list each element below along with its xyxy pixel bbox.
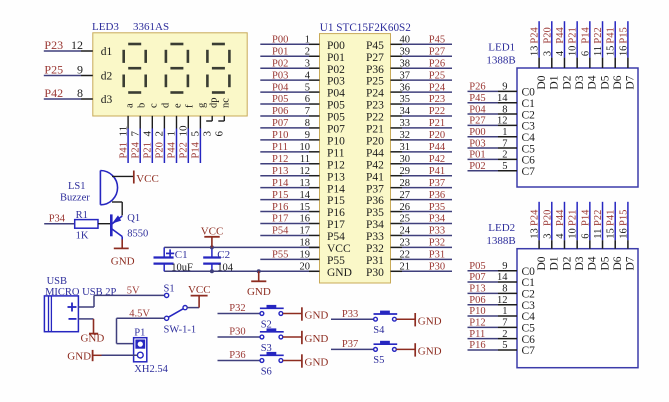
svg-text:P34: P34 <box>429 214 446 225</box>
svg-text:P44: P44 <box>429 142 446 153</box>
svg-text:P01: P01 <box>469 150 485 161</box>
svg-text:SW-1-1: SW-1-1 <box>164 325 197 336</box>
svg-text:6: 6 <box>305 94 310 105</box>
svg-text:13: 13 <box>530 228 541 239</box>
svg-text:7: 7 <box>129 131 141 137</box>
svg-text:VCC: VCC <box>188 284 211 296</box>
svg-text:37: 37 <box>400 70 411 81</box>
svg-text:LS1: LS1 <box>68 181 86 192</box>
svg-text:P42: P42 <box>44 86 63 100</box>
svg-text:3: 3 <box>305 58 310 69</box>
svg-text:3: 3 <box>542 233 553 238</box>
svg-text:P42: P42 <box>429 154 445 165</box>
svg-text:7: 7 <box>305 106 310 117</box>
svg-text:P44: P44 <box>555 209 566 226</box>
svg-text:P26: P26 <box>469 82 485 93</box>
svg-text:P32: P32 <box>229 303 245 314</box>
svg-text:P37: P37 <box>342 339 358 350</box>
svg-text:C7: C7 <box>522 166 536 178</box>
svg-text:D4: D4 <box>587 75 599 89</box>
svg-text:P24: P24 <box>530 27 541 44</box>
svg-text:P05: P05 <box>469 261 485 272</box>
svg-text:P16: P16 <box>469 340 485 351</box>
svg-text:32: 32 <box>400 130 411 141</box>
svg-text:LED3: LED3 <box>92 21 119 33</box>
svg-text:7: 7 <box>502 318 507 329</box>
svg-text:P06: P06 <box>272 106 288 117</box>
svg-text:P25: P25 <box>44 63 63 77</box>
svg-text:P15: P15 <box>327 195 345 207</box>
svg-text:a: a <box>124 103 135 108</box>
svg-text:29: 29 <box>400 166 411 177</box>
svg-text:9: 9 <box>502 261 507 272</box>
svg-text:P23: P23 <box>44 38 63 52</box>
svg-text:P24: P24 <box>130 141 141 158</box>
svg-text:P36: P36 <box>429 190 445 201</box>
svg-text:P11: P11 <box>469 329 485 340</box>
svg-text:C5: C5 <box>522 143 536 155</box>
svg-text:P45: P45 <box>429 35 445 46</box>
svg-text:4: 4 <box>555 50 566 56</box>
svg-text:P17: P17 <box>272 214 288 225</box>
svg-text:19: 19 <box>300 250 311 261</box>
svg-text:P22: P22 <box>429 106 445 117</box>
svg-text:P36: P36 <box>229 350 245 361</box>
svg-text:e: e <box>173 103 184 108</box>
svg-text:6: 6 <box>580 233 591 238</box>
svg-text:P24: P24 <box>530 209 541 226</box>
svg-text:P07: P07 <box>327 124 345 136</box>
svg-text:5: 5 <box>502 161 507 172</box>
svg-text:P21: P21 <box>568 27 579 43</box>
svg-text:14: 14 <box>497 93 508 104</box>
svg-text:b: b <box>136 103 147 108</box>
svg-text:39: 39 <box>400 46 411 57</box>
svg-text:D6: D6 <box>612 75 624 89</box>
svg-text:14: 14 <box>497 272 508 283</box>
svg-text:P54: P54 <box>327 231 345 243</box>
svg-text:C7: C7 <box>522 345 536 357</box>
svg-text:P54: P54 <box>272 226 289 237</box>
svg-text:GND: GND <box>111 256 135 268</box>
svg-text:P05: P05 <box>272 94 288 105</box>
svg-text:D7: D7 <box>625 256 637 270</box>
svg-text:31: 31 <box>400 142 411 153</box>
svg-text:P03: P03 <box>327 76 345 88</box>
svg-text:P36: P36 <box>366 195 384 207</box>
svg-text:P22: P22 <box>179 142 190 158</box>
svg-text:P13: P13 <box>272 166 288 177</box>
svg-text:P45: P45 <box>366 40 384 52</box>
svg-text:15: 15 <box>606 228 617 239</box>
svg-text:3: 3 <box>542 51 553 56</box>
svg-text:26: 26 <box>400 202 411 213</box>
svg-text:S4: S4 <box>373 325 385 336</box>
svg-text:P25: P25 <box>429 70 445 81</box>
svg-text:GND: GND <box>247 286 271 298</box>
svg-text:P20: P20 <box>542 27 553 43</box>
svg-text:P31: P31 <box>429 250 445 261</box>
svg-text:P44: P44 <box>167 141 178 158</box>
svg-text:P41: P41 <box>118 142 129 158</box>
svg-text:P41: P41 <box>429 166 445 177</box>
svg-text:P41: P41 <box>606 210 617 226</box>
svg-text:g: g <box>197 102 208 108</box>
svg-text:S6: S6 <box>261 366 272 377</box>
svg-text:D1: D1 <box>549 75 561 89</box>
svg-text:8: 8 <box>502 104 507 115</box>
svg-text:30: 30 <box>400 154 411 165</box>
svg-text:P17: P17 <box>327 219 345 231</box>
svg-text:GND: GND <box>67 350 91 362</box>
svg-text:P10: P10 <box>327 135 345 147</box>
svg-text:C6: C6 <box>522 155 536 167</box>
svg-text:5: 5 <box>305 82 310 93</box>
svg-text:C1: C1 <box>522 98 536 110</box>
svg-text:11: 11 <box>300 154 310 165</box>
svg-text:GND: GND <box>80 333 104 345</box>
svg-text:P04: P04 <box>469 104 486 115</box>
svg-text:10uF: 10uF <box>171 263 193 274</box>
svg-text:25: 25 <box>400 214 411 225</box>
svg-text:P16: P16 <box>327 207 345 219</box>
svg-text:9: 9 <box>305 130 310 141</box>
svg-text:2: 2 <box>502 329 507 340</box>
svg-text:P12: P12 <box>272 154 288 165</box>
svg-text:C0: C0 <box>522 266 536 278</box>
svg-text:P20: P20 <box>429 130 445 141</box>
svg-text:P00: P00 <box>327 40 345 52</box>
svg-text:D3: D3 <box>574 256 586 270</box>
svg-text:R1: R1 <box>76 210 88 221</box>
svg-text:P23: P23 <box>429 94 445 105</box>
svg-text:22: 22 <box>400 250 411 261</box>
svg-text:11: 11 <box>593 46 604 56</box>
svg-text:P12: P12 <box>327 159 345 171</box>
svg-text:9: 9 <box>77 63 83 77</box>
svg-text:21: 21 <box>400 261 411 272</box>
svg-text:C3: C3 <box>522 300 536 312</box>
svg-text:f: f <box>185 104 196 108</box>
svg-text:LED1: LED1 <box>488 42 515 54</box>
svg-text:P03: P03 <box>469 138 485 149</box>
svg-text:D2: D2 <box>561 75 573 89</box>
svg-text:9: 9 <box>502 82 507 93</box>
svg-text:16: 16 <box>300 214 311 225</box>
svg-text:12: 12 <box>497 116 508 127</box>
svg-text:S1: S1 <box>164 284 175 295</box>
svg-text:18: 18 <box>300 238 311 249</box>
svg-text:1388B: 1388B <box>486 235 515 247</box>
svg-text:4: 4 <box>555 233 566 239</box>
svg-text:P30: P30 <box>366 267 384 279</box>
svg-text:P11: P11 <box>272 142 288 153</box>
svg-text:P21: P21 <box>366 124 384 136</box>
svg-text:12: 12 <box>300 166 311 177</box>
svg-text:10: 10 <box>568 228 579 239</box>
svg-text:P20: P20 <box>542 210 553 226</box>
svg-text:6: 6 <box>214 131 226 137</box>
svg-text:1: 1 <box>502 127 507 138</box>
svg-text:GND: GND <box>418 315 442 327</box>
svg-text:P14: P14 <box>580 27 591 44</box>
svg-text:nc: nc <box>221 98 232 108</box>
svg-text:P06: P06 <box>469 295 485 306</box>
svg-text:D1: D1 <box>549 256 561 270</box>
svg-text:1: 1 <box>166 131 178 137</box>
svg-text:d3: d3 <box>101 94 113 106</box>
svg-text:15: 15 <box>300 202 311 213</box>
svg-text:P10: P10 <box>272 130 288 141</box>
svg-text:GND: GND <box>327 267 352 279</box>
svg-text:P00: P00 <box>272 35 288 46</box>
svg-text:P41: P41 <box>606 27 617 43</box>
svg-text:5: 5 <box>502 340 507 351</box>
svg-text:2: 2 <box>502 150 507 161</box>
svg-text:P32: P32 <box>429 238 445 249</box>
svg-text:3361AS: 3361AS <box>133 21 169 33</box>
svg-text:P22: P22 <box>593 210 604 226</box>
svg-text:D7: D7 <box>625 75 637 89</box>
svg-text:36: 36 <box>400 82 411 93</box>
svg-text:6: 6 <box>580 51 591 56</box>
svg-text:P02: P02 <box>469 161 485 172</box>
svg-text:P41: P41 <box>366 171 384 183</box>
svg-text:5V: 5V <box>127 286 140 297</box>
svg-text:P07: P07 <box>469 272 485 283</box>
svg-text:1K: 1K <box>76 231 89 242</box>
svg-text:17: 17 <box>300 226 311 237</box>
svg-text:8: 8 <box>502 284 507 295</box>
svg-text:23: 23 <box>400 238 411 249</box>
svg-text:dp: dp <box>208 98 219 109</box>
svg-text:P01: P01 <box>272 46 288 57</box>
svg-text:P05: P05 <box>327 100 345 112</box>
svg-text:10: 10 <box>300 142 311 153</box>
svg-text:Buzzer: Buzzer <box>60 193 90 204</box>
svg-text:P35: P35 <box>366 207 384 219</box>
svg-text:1: 1 <box>502 306 507 317</box>
svg-text:VCC: VCC <box>136 173 159 185</box>
svg-text:P44: P44 <box>366 147 384 159</box>
svg-text:P27: P27 <box>469 116 485 127</box>
svg-text:VCC: VCC <box>327 243 351 255</box>
svg-text:C5: C5 <box>522 323 536 335</box>
svg-text:C6: C6 <box>522 334 536 346</box>
svg-text:S5: S5 <box>373 355 384 366</box>
svg-text:P14: P14 <box>191 141 202 158</box>
svg-text:16: 16 <box>618 46 629 57</box>
svg-text:1: 1 <box>305 35 310 46</box>
svg-text:P21: P21 <box>429 118 445 129</box>
svg-text:8550: 8550 <box>127 229 148 240</box>
svg-text:P22: P22 <box>366 112 384 124</box>
svg-text:P04: P04 <box>272 82 289 93</box>
svg-text:2: 2 <box>154 131 166 137</box>
svg-text:P21: P21 <box>143 142 154 158</box>
svg-text:C2: C2 <box>217 249 230 261</box>
svg-text:5: 5 <box>190 131 202 137</box>
svg-text:P05: P05 <box>327 112 345 124</box>
svg-text:D2: D2 <box>561 256 573 270</box>
svg-text:1388B: 1388B <box>486 55 515 67</box>
svg-text:40: 40 <box>400 35 411 46</box>
svg-text:GND: GND <box>305 357 329 369</box>
svg-text:P13: P13 <box>327 171 345 183</box>
svg-text:D6: D6 <box>612 256 624 270</box>
svg-text:P02: P02 <box>272 58 288 69</box>
svg-text:d2: d2 <box>101 71 113 83</box>
svg-text:13: 13 <box>300 178 311 189</box>
svg-text:d1: d1 <box>101 46 113 58</box>
svg-text:P02: P02 <box>327 64 345 76</box>
svg-text:P34: P34 <box>49 214 66 225</box>
svg-text:P00: P00 <box>469 127 485 138</box>
svg-text:C4: C4 <box>522 132 536 144</box>
svg-text:P01: P01 <box>327 52 345 64</box>
svg-text:D4: D4 <box>587 256 599 270</box>
svg-text:P27: P27 <box>366 52 384 64</box>
svg-text:4: 4 <box>305 70 311 81</box>
svg-text:D0: D0 <box>536 75 548 89</box>
svg-text:P13: P13 <box>469 284 485 295</box>
svg-text:12: 12 <box>71 38 83 52</box>
svg-text:P33: P33 <box>366 231 384 243</box>
svg-text:P14: P14 <box>580 209 591 226</box>
svg-text:LED2: LED2 <box>488 222 515 234</box>
svg-text:P14: P14 <box>272 178 289 189</box>
svg-text:P36: P36 <box>366 64 384 76</box>
svg-text:P15: P15 <box>272 190 288 201</box>
svg-text:104: 104 <box>217 263 234 274</box>
svg-text:XH2.54: XH2.54 <box>134 364 168 375</box>
svg-text:P55: P55 <box>272 250 288 261</box>
svg-text:VCC: VCC <box>201 226 224 238</box>
svg-text:16: 16 <box>618 228 629 239</box>
svg-text:P1: P1 <box>134 328 145 339</box>
svg-text:P07: P07 <box>272 118 288 129</box>
svg-text:P30: P30 <box>229 327 245 338</box>
svg-text:P21: P21 <box>568 210 579 226</box>
svg-text:P10: P10 <box>469 306 485 317</box>
svg-text:P11: P11 <box>327 147 345 159</box>
svg-text:P45: P45 <box>469 93 485 104</box>
svg-text:P34: P34 <box>366 219 384 231</box>
svg-text:P32: P32 <box>366 243 384 255</box>
svg-text:Q1: Q1 <box>127 213 140 224</box>
svg-text:P33: P33 <box>342 309 358 320</box>
svg-text:P44: P44 <box>555 27 566 44</box>
svg-text:P35: P35 <box>429 202 445 213</box>
svg-text:P24: P24 <box>429 82 446 93</box>
svg-text:P37: P37 <box>366 183 384 195</box>
svg-text:8: 8 <box>305 118 310 129</box>
svg-text:P33: P33 <box>429 226 445 237</box>
svg-text:12: 12 <box>497 295 508 306</box>
svg-text:P26: P26 <box>429 58 445 69</box>
svg-text:P15: P15 <box>618 27 629 43</box>
svg-text:P22: P22 <box>593 27 604 43</box>
svg-text:34: 34 <box>400 106 411 117</box>
svg-text:15: 15 <box>606 46 617 57</box>
svg-text:GND: GND <box>418 346 442 358</box>
svg-text:d: d <box>161 102 172 108</box>
svg-text:P14: P14 <box>327 183 345 195</box>
svg-text:24: 24 <box>400 226 411 237</box>
svg-text:14: 14 <box>300 190 311 201</box>
svg-text:P27: P27 <box>429 46 445 57</box>
svg-text:P30: P30 <box>429 261 445 272</box>
svg-text:20: 20 <box>300 261 311 272</box>
svg-text:P04: P04 <box>327 88 345 100</box>
svg-text:U1 STC15F2K60S2: U1 STC15F2K60S2 <box>320 22 411 34</box>
svg-text:P03: P03 <box>272 70 288 81</box>
svg-text:C2: C2 <box>522 289 536 301</box>
svg-text:11: 11 <box>593 229 604 239</box>
svg-text:38: 38 <box>400 58 411 69</box>
svg-text:c: c <box>149 103 160 108</box>
svg-text:P20: P20 <box>366 135 384 147</box>
svg-text:D3: D3 <box>574 75 586 89</box>
svg-text:3: 3 <box>201 131 213 137</box>
svg-text:P12: P12 <box>469 318 485 329</box>
svg-text:C1: C1 <box>522 277 536 289</box>
svg-text:C0: C0 <box>522 87 536 99</box>
svg-text:27: 27 <box>400 190 411 201</box>
svg-text:10: 10 <box>568 46 579 57</box>
svg-text:13: 13 <box>530 46 541 57</box>
svg-text:C3: C3 <box>522 121 536 133</box>
svg-text:4: 4 <box>142 131 154 137</box>
svg-text:7: 7 <box>502 138 507 149</box>
svg-text:C4: C4 <box>522 311 536 323</box>
svg-text:8: 8 <box>77 86 83 100</box>
svg-text:GND: GND <box>305 333 329 345</box>
svg-text:P23: P23 <box>366 100 384 112</box>
svg-text:P42: P42 <box>366 159 384 171</box>
svg-text:P20: P20 <box>155 142 166 158</box>
svg-text:11: 11 <box>117 126 129 137</box>
svg-text:C1: C1 <box>175 249 188 261</box>
svg-text:D5: D5 <box>599 256 611 270</box>
svg-text:2: 2 <box>305 46 310 57</box>
svg-text:P16: P16 <box>272 202 288 213</box>
svg-text:C2: C2 <box>522 109 536 121</box>
svg-text:P24: P24 <box>366 88 384 100</box>
svg-text:28: 28 <box>400 178 411 189</box>
svg-text:P15: P15 <box>618 210 629 226</box>
svg-text:35: 35 <box>400 94 411 105</box>
svg-text:P25: P25 <box>366 76 384 88</box>
svg-text:10: 10 <box>178 125 190 137</box>
svg-text:33: 33 <box>400 118 411 129</box>
svg-text:D0: D0 <box>536 256 548 270</box>
svg-text:D5: D5 <box>599 75 611 89</box>
svg-text:GND: GND <box>305 310 329 322</box>
svg-text:P37: P37 <box>429 178 445 189</box>
svg-text:P31: P31 <box>366 255 384 267</box>
svg-text:P55: P55 <box>327 255 345 267</box>
svg-text:USB: USB <box>47 276 67 287</box>
